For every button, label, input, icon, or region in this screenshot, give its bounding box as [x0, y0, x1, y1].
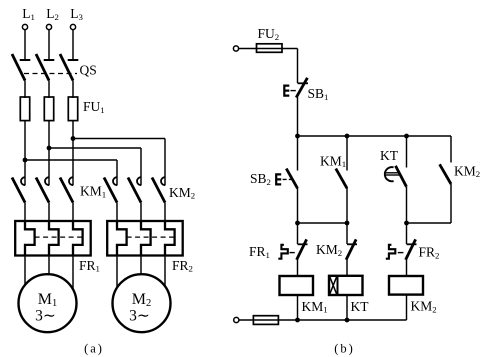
- thermal relay FR2 heater 1: [117, 221, 127, 256]
- svg-text:QS: QS: [80, 63, 97, 78]
- relay KT delayed contact bars: [386, 172, 400, 174]
- contactor KM2 main contact 2 blade: [128, 178, 141, 203]
- wire QS to FU1 pole 2: [48, 81, 50, 99]
- wire L2 drop: [48, 30, 50, 60]
- svg-text:L2: L2: [46, 6, 59, 22]
- contactor KM2 auxiliary contact blade: [440, 164, 451, 184]
- svg-text:KT: KT: [351, 299, 370, 314]
- wire KM1 coil to bottom rail: [297, 295, 299, 320]
- contactor KM1 main contact 1 arc: [21, 177, 25, 185]
- wire FU1 to KM1 contact phase 1: [24, 121, 26, 186]
- svg-text:KM1: KM1: [80, 184, 106, 200]
- wire bottom rail: [239, 319, 407, 321]
- contactor KM2 main contact 1 blade: [104, 178, 117, 203]
- wire KM2 aux to KT node: [407, 222, 452, 224]
- svg-text:FU2: FU2: [258, 26, 280, 42]
- pushbutton SB1 actuator E: [284, 86, 289, 96]
- switch QS pole 1 blade: [12, 54, 25, 81]
- contactor KM1 main contact 2 arc: [45, 177, 49, 185]
- node bottom rail at KT coil: [345, 318, 350, 323]
- wire FU1 to KM1 contact phase 3: [72, 121, 74, 186]
- svg-text:SB1: SB1: [308, 86, 329, 102]
- wire FR1 contact to KM1 coil: [297, 258, 299, 276]
- switch QS linkage dashed line: [24, 73, 77, 75]
- wire KM2 aux down: [450, 184, 452, 223]
- svg-text:KM2: KM2: [454, 163, 480, 179]
- thermal relay FR1 linkage dashed: [35, 236, 83, 238]
- pushbutton SB1 blade: [296, 78, 307, 98]
- contactor KM2 main contact 3 arc: [161, 177, 165, 185]
- thermal contact FR2 tick: [407, 243, 417, 245]
- coil KM2: [389, 276, 423, 295]
- wire FR to motor M2 lead 2: [140, 256, 142, 275]
- svg-text:KM1: KM1: [320, 153, 346, 169]
- node mid rail at KT: [404, 221, 409, 226]
- contactor KM1 main contact 2 blade: [36, 178, 49, 203]
- wire rail to SB2: [297, 136, 299, 171]
- wire mid rail SB2 to KM1: [298, 222, 348, 224]
- pushbutton SB1 fixed contact tick: [298, 82, 309, 84]
- svg-text:L1: L1: [22, 6, 35, 22]
- pushbutton SB2 actuator dashed link: [283, 178, 293, 180]
- terminal bottom left of control circuit: [234, 317, 239, 322]
- contactor KM1 main contact 1 blade: [12, 178, 25, 203]
- thermal contact FR2 blade: [406, 239, 416, 259]
- contactor KM2 main contact 2 arc: [137, 177, 141, 185]
- wire terminal to FU2: [239, 48, 298, 50]
- wire top rail: [298, 135, 452, 137]
- terminal top left of control circuit: [233, 46, 238, 51]
- wire branch phase1 drop: [116, 160, 118, 185]
- wire L3 drop: [72, 30, 74, 60]
- wire rail to KT contact: [406, 136, 408, 168]
- switch QS pole 2 fixed contact bar: [44, 59, 55, 61]
- pushbutton SB1 actuator dashed link: [291, 90, 296, 92]
- wire KM2 NC contact to KT coil: [346, 258, 348, 275]
- contactor KM1 main contact 3 arc: [69, 177, 73, 185]
- wire L1 drop: [24, 30, 26, 60]
- node bottom rail at KM1 coil: [295, 318, 300, 323]
- fuse FU1 element 1: [20, 97, 29, 121]
- svg-text:3∼: 3∼: [35, 307, 56, 324]
- thermal contact FR1 actuator: [278, 245, 288, 259]
- node mid rail at SB2: [295, 221, 300, 226]
- wire SB2 to mid rail: [297, 188, 299, 223]
- svg-text:(a): (a): [84, 342, 104, 356]
- motor M2 circle: [113, 274, 171, 332]
- wire SB1 to top rail node: [297, 97, 299, 136]
- thermal contact FR1 tick: [298, 243, 308, 245]
- node junction phase2 branch: [47, 146, 52, 151]
- wire rail corner to KM2 aux: [450, 136, 452, 163]
- fuse FU1 element 2: [44, 97, 53, 121]
- wire mid rail to KM2 NC contact: [346, 223, 348, 244]
- wire KM2 coil to bottom rail: [406, 295, 408, 320]
- svg-text:FR2: FR2: [419, 245, 440, 261]
- svg-text:FR1: FR1: [79, 258, 100, 274]
- wire FR to motor M1 lead 1: [24, 256, 26, 285]
- fuse bottom unlabeled: [253, 316, 278, 325]
- thermal contact FR2 actuator: [386, 245, 396, 259]
- switch QS pole 3 fixed contact bar: [68, 59, 79, 61]
- wire KM2 contact 2 to FR: [140, 203, 142, 222]
- node junction phase1 branch: [23, 158, 28, 163]
- coil KT X mark: [330, 277, 337, 294]
- thermal relay FR2 heater 3: [165, 221, 175, 256]
- wire branch phase2 horizontal: [49, 147, 141, 149]
- svg-text:3∼: 3∼: [129, 307, 150, 324]
- fuse FU1 element 3: [68, 97, 77, 121]
- node top rail at SB2: [295, 134, 300, 139]
- svg-text:KM2: KM2: [411, 299, 437, 315]
- contactor KM2 NC contact tick: [347, 243, 357, 245]
- contactor KM1 main contact 3 blade: [60, 178, 73, 203]
- svg-text:KT: KT: [380, 148, 399, 163]
- wire branch phase3 drop: [164, 139, 166, 186]
- wire branch phase3 horizontal: [73, 138, 165, 140]
- wire mid rail to FR1 contact: [297, 223, 299, 244]
- thermal relay FR2 box: [107, 221, 183, 256]
- wire branch phase1 horizontal: [25, 159, 117, 161]
- contactor KM2 main contact 1 arc: [113, 177, 117, 185]
- svg-text:KM2: KM2: [169, 185, 195, 201]
- thermal relay FR1 heater 3: [73, 221, 83, 256]
- svg-text:KM2: KM2: [316, 242, 342, 258]
- wire QS to FU1 pole 3: [72, 81, 74, 99]
- switch QS pole 2 blade: [36, 54, 49, 81]
- thermal relay FR1 heater 2: [49, 221, 59, 256]
- thermal relay FR1 heater 1: [25, 221, 35, 256]
- wire FR to motor M1 lead 3: [72, 256, 74, 290]
- coil KT box: [329, 276, 363, 295]
- terminal L3: [70, 24, 75, 29]
- contactor KM1 auxiliary contact blade: [336, 169, 347, 189]
- wire KM2 contact 3 to FR: [164, 203, 166, 222]
- node junction phase3 branch: [71, 136, 76, 141]
- thermal relay FR2 linkage dashed: [127, 236, 175, 238]
- relay KT contact blade: [396, 166, 407, 187]
- contactor KM2 NC contact blade: [346, 239, 356, 259]
- wire KM1 contact 2 to FR: [48, 203, 50, 222]
- wire QS to FU1 pole 1: [24, 81, 26, 99]
- node top rail at KT: [404, 134, 409, 139]
- wire rail to KM1 aux contact: [346, 136, 348, 171]
- wire KM1 aux to mid rail: [346, 188, 348, 223]
- wire FR to motor M1 lead 2: [48, 256, 50, 275]
- thermal relay FR2 heater 2: [141, 221, 151, 256]
- wire FR2 contact to KM2 coil: [406, 258, 408, 275]
- svg-text:FR1: FR1: [249, 244, 270, 260]
- wire FR to motor M2 lead 1: [116, 256, 118, 288]
- terminal L2: [46, 24, 51, 29]
- pushbutton SB2 blade: [286, 169, 297, 189]
- svg-text:(b): (b): [334, 342, 355, 356]
- wire FU2 corner down to SB1: [297, 49, 299, 84]
- svg-text:FR2: FR2: [172, 258, 193, 274]
- relay KT delayed contact arc: [385, 167, 394, 181]
- thermal relay FR1 box: [15, 221, 91, 256]
- thermal contact FR1 blade: [297, 239, 307, 259]
- wire FR to motor M2 lead 3: [164, 256, 166, 287]
- switch QS pole 3 blade: [60, 54, 73, 81]
- wire branch phase2 drop: [140, 148, 142, 185]
- wire KM2 contact 1 to FR: [116, 203, 118, 222]
- svg-text:FU1: FU1: [83, 99, 105, 115]
- wire KT coil to bottom rail: [346, 295, 348, 320]
- motor M1 circle: [19, 274, 77, 332]
- pushbutton SB2 actuator E: [276, 174, 281, 184]
- svg-text:KM1: KM1: [302, 299, 328, 315]
- node top rail at KM1: [345, 134, 350, 139]
- wire KM1 contact 1 to FR: [24, 203, 26, 222]
- switch QS pole 1 fixed contact bar: [20, 59, 31, 61]
- terminal L1: [22, 24, 27, 29]
- thermal contact FR2 dashed link: [398, 252, 404, 254]
- fuse FU2: [257, 44, 283, 53]
- wire mid rail to FR2 contact: [406, 223, 408, 244]
- wire KT contact down: [406, 187, 408, 223]
- thermal contact FR1 dashed link: [290, 252, 295, 254]
- wire FU1 to KM1 contact phase 2: [48, 121, 50, 186]
- svg-text:L3: L3: [70, 6, 83, 22]
- svg-text:SB2: SB2: [250, 171, 271, 187]
- contactor KM2 main contact 3 blade: [152, 178, 165, 203]
- wire KM1 contact 3 to FR: [72, 203, 74, 222]
- node mid rail at KM1: [345, 221, 350, 226]
- coil KT divider: [337, 276, 339, 295]
- coil KM1: [280, 276, 314, 295]
